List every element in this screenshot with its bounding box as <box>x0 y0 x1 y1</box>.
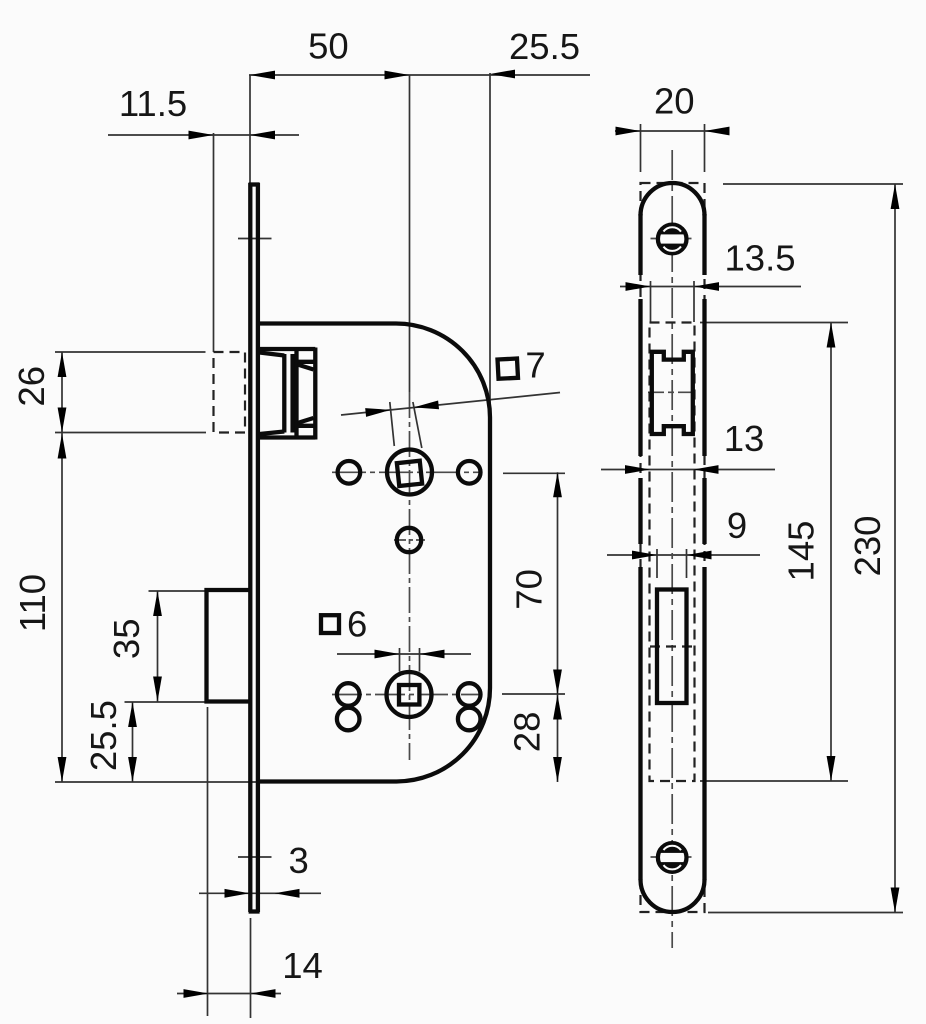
svg-text:3: 3 <box>289 840 309 881</box>
svg-text:13.5: 13.5 <box>724 238 795 279</box>
svg-text:9: 9 <box>727 505 747 546</box>
svg-text:35: 35 <box>106 618 147 659</box>
svg-text:6: 6 <box>347 604 367 645</box>
svg-text:28: 28 <box>507 712 548 753</box>
svg-text:11.5: 11.5 <box>119 83 187 124</box>
svg-text:26: 26 <box>11 366 52 407</box>
svg-text:50: 50 <box>308 25 349 66</box>
svg-text:110: 110 <box>12 574 53 632</box>
svg-text:25.5: 25.5 <box>509 26 580 67</box>
svg-text:25.5: 25.5 <box>83 700 124 771</box>
svg-text:70: 70 <box>508 569 549 610</box>
svg-text:14: 14 <box>282 945 323 986</box>
svg-text:7: 7 <box>525 345 545 386</box>
svg-text:13: 13 <box>724 418 765 459</box>
svg-text:230: 230 <box>847 516 888 577</box>
svg-text:20: 20 <box>654 81 695 122</box>
svg-text:145: 145 <box>780 521 821 582</box>
